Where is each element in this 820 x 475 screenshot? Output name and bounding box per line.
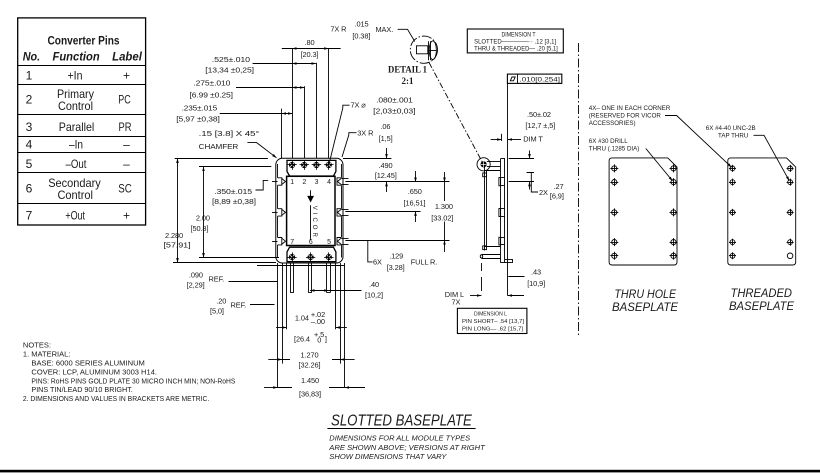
4X corner leader — [665, 116, 732, 168]
top pins 1-4 — [289, 162, 332, 168]
dim .525 — [253, 63, 316, 65]
pin numbers top — [290, 179, 331, 186]
svg-text:.080±.001: .080±.001 — [376, 96, 413, 105]
svg-text:2: 2 — [302, 179, 306, 186]
left slot row 1 — [272, 178, 286, 185]
ref .090 leader — [229, 281, 278, 283]
3X R leader — [342, 133, 357, 157]
svg-text:DIMENSION L: DIMENSION L — [474, 312, 508, 318]
svg-text:1.450: 1.450 — [301, 376, 319, 385]
svg-text:3X R: 3X R — [357, 129, 373, 138]
dim 2.280 text — [164, 231, 191, 249]
ext line 1.270 right — [340, 263, 342, 364]
svg-text:[10,2]: [10,2] — [365, 291, 383, 300]
svg-text:[6,9]: [6,9] — [550, 192, 564, 201]
svg-text:.525±.010: .525±.010 — [212, 55, 250, 64]
svg-text:6X #30 DRILL: 6X #30 DRILL — [589, 138, 628, 145]
dim 2.280 extension top — [175, 158, 268, 160]
svg-text:THRU (.1285 DIA): THRU (.1285 DIA) — [589, 146, 640, 153]
ext line 1.450 left — [277, 263, 279, 388]
svg-text:VICOR: VICOR — [311, 206, 317, 238]
svg-text:PIN SHORT– .54 [13,7]: PIN SHORT– .54 [13,7] — [462, 319, 524, 325]
dim .650 — [415, 171, 417, 222]
side view module body — [484, 167, 500, 251]
front view bottom pin header band — [287, 247, 336, 262]
svg-text:[1,5]: [1,5] — [379, 134, 393, 143]
svg-text:7X: 7X — [452, 298, 461, 307]
dim .525 arrows — [292, 63, 316, 65]
svg-text:2.00: 2.00 — [196, 214, 210, 223]
detail circle — [410, 36, 437, 63]
svg-text:4: 4 — [327, 179, 331, 186]
svg-text:SLOTTED————–·· .12 [3,1]: SLOTTED————–·· .12 [3,1] — [474, 39, 556, 46]
dim .235 text — [176, 104, 219, 124]
dim .350 text — [212, 187, 256, 206]
dimension L box — [457, 308, 527, 333]
dim .50 ext row1 — [509, 181, 534, 183]
svg-text:–: – — [123, 138, 130, 152]
dimension L box text — [462, 312, 524, 333]
svg-text:[0.38]: [0.38] — [352, 31, 370, 40]
svg-text:3: 3 — [315, 179, 319, 186]
slot row2 ext right — [345, 211, 420, 213]
svg-text:[13,34 ±0,25]: [13,34 ±0,25] — [205, 66, 254, 75]
dim 1.270 line — [268, 359, 354, 361]
svg-text:.490: .490 — [379, 161, 393, 170]
svg-text:7X R: 7X R — [330, 24, 346, 33]
pin numbers bottom — [290, 239, 331, 246]
svg-text:1.04: 1.04 — [295, 313, 309, 322]
7X dia leader — [330, 105, 350, 162]
dim .490 — [386, 148, 388, 192]
bottom pin cross ticks — [287, 252, 333, 261]
bottom pin 5 lead — [327, 263, 331, 293]
svg-text:SHOW DIMENSIONS THAT VARY: SHOW DIMENSIONS THAT VARY — [329, 452, 447, 461]
svg-text:.275±.010: .275±.010 — [193, 79, 230, 88]
svg-text:–Out: –Out — [66, 157, 88, 171]
slotted baseplate title — [331, 412, 472, 429]
svg-text:ARE SHOWN ABOVE; VERSIONS AT R: ARE SHOWN ABOVE; VERSIONS AT RIGHT — [328, 443, 486, 452]
dim 1.300 — [444, 172, 446, 252]
svg-text:[36,83]: [36,83] — [299, 389, 321, 398]
svg-text:Control: Control — [58, 99, 93, 113]
svg-text:[3.28]: [3.28] — [387, 263, 405, 272]
svg-text:NOTES:: NOTES: — [23, 341, 51, 350]
dim 2.280 line — [177, 159, 179, 263]
svg-text:.40: .40 — [369, 280, 379, 289]
dim 1.300 text — [430, 201, 460, 222]
svg-text:7X ⌀: 7X ⌀ — [351, 101, 366, 110]
slot row3 ext right — [345, 240, 449, 242]
dim 2.00 extension bottom — [199, 257, 279, 259]
6X .129 bracket — [368, 240, 373, 262]
dim .650 text — [404, 187, 426, 208]
dim .275 text — [190, 79, 233, 100]
svg-text:[12.45]: [12.45] — [375, 171, 397, 180]
svg-text:.090: .090 — [189, 270, 203, 279]
pin 3 extension line — [316, 63, 318, 158]
threaded plate open hole bottom right — [787, 253, 793, 259]
svg-text:[26.4: [26.4 — [294, 334, 310, 343]
svg-text:7: 7 — [26, 209, 33, 223]
svg-text:Converter Pins: Converter Pins — [48, 34, 120, 48]
svg-text:6X: 6X — [373, 258, 382, 267]
svg-text:.650: .650 — [408, 187, 422, 196]
svg-text:1.300: 1.300 — [435, 202, 453, 211]
dimension T box text — [474, 31, 558, 52]
svg-text:.27: .27 — [554, 182, 564, 191]
svg-text:Label: Label — [112, 50, 142, 64]
slot row1 ext right — [345, 181, 449, 183]
table text — [23, 34, 143, 223]
svg-text:2.280: 2.280 — [165, 231, 183, 240]
svg-text:1: 1 — [26, 69, 33, 83]
svg-text:6: 6 — [26, 182, 33, 196]
dim .50 ext top — [509, 158, 534, 160]
side view plate face ext line — [507, 83, 509, 295]
svg-text:[33.02]: [33.02] — [431, 213, 453, 222]
svg-text:[12,7 ±,5]: [12,7 ±,5] — [525, 121, 555, 130]
svg-text:2:1: 2:1 — [402, 76, 414, 86]
dim T text — [523, 135, 543, 144]
dim .235 — [220, 113, 293, 115]
chamfer leader — [247, 143, 276, 158]
side view bottom pin — [480, 246, 500, 259]
detail title — [388, 66, 427, 87]
svg-text:PR: PR — [119, 120, 132, 134]
dim L line — [470, 295, 524, 297]
threaded plate holes left — [729, 165, 736, 259]
pin 4 extension line — [328, 49, 330, 159]
svg-text:[2,29]: [2,29] — [187, 280, 205, 289]
dim L text — [445, 290, 464, 307]
svg-text:Control: Control — [57, 188, 93, 202]
dim .40 text — [365, 280, 383, 299]
svg-text:.06: .06 — [380, 122, 390, 131]
svg-text:1: 1 — [290, 179, 294, 186]
bottom pin 7 lead — [290, 263, 293, 293]
bottom pin white X — [290, 255, 331, 259]
thru hole plate holes right — [670, 164, 678, 259]
svg-text:Function: Function — [53, 50, 100, 64]
svg-text:COVER: LCP, ALUMINUM 3003 H14.: COVER: LCP, ALUMINUM 3003 H14. — [31, 367, 157, 376]
converter pins table — [18, 18, 146, 225]
svg-text:3: 3 — [26, 120, 33, 134]
side view detail boundary circle — [477, 158, 490, 171]
svg-text:2X: 2X — [539, 188, 548, 197]
right slot row 2 — [337, 209, 349, 216]
svg-text:6X #4-40 UNC-2B: 6X #4-40 UNC-2B — [706, 125, 756, 132]
svg-text:.15 [3.8] X 45°: .15 [3.8] X 45° — [199, 129, 260, 138]
svg-text:4X– ONE IN EACH CORNER: 4X– ONE IN EACH CORNER — [589, 105, 671, 112]
svg-text:REF.: REF. — [209, 275, 225, 284]
svg-text:ACCESSORIES): ACCESSORIES) — [589, 120, 636, 127]
threaded title — [729, 286, 795, 313]
dim .350 elbow — [256, 180, 269, 190]
svg-text:0: 0 — [317, 336, 321, 345]
ref .20 text — [210, 297, 246, 316]
svg-text:[8,89 ±0,38]: [8,89 ±0,38] — [212, 197, 256, 206]
side view top pin — [481, 161, 501, 177]
6X tap note text — [706, 125, 756, 140]
separator centerline — [578, 43, 580, 337]
slotted baseplate subtitle — [328, 434, 486, 461]
7X R note text — [330, 19, 393, 40]
svg-text:MAX.: MAX. — [376, 25, 394, 34]
chamfer note text — [199, 129, 260, 151]
7X R leader — [398, 29, 415, 41]
side view baseplate profile — [499, 159, 513, 263]
svg-text:PINS: RoHS PINS GOLD PLATE 30: PINS: RoHS PINS GOLD PLATE 30 MICRO INCH… — [31, 376, 235, 385]
svg-text:[2,03±0,03]: [2,03±0,03] — [373, 107, 415, 116]
flange edge extension line — [281, 109, 283, 158]
svg-text:.010[0.254]: .010[0.254] — [520, 76, 561, 83]
dim .275 arrows — [292, 87, 304, 89]
2X .27 bracket — [527, 173, 539, 193]
dim 1.04 line — [276, 327, 347, 329]
detail section leader dash-dot — [429, 63, 483, 163]
bottom border bar — [0, 470, 820, 473]
dim .43 text — [527, 268, 545, 289]
dim 1.450 text — [292, 376, 329, 397]
dimension T box — [467, 29, 563, 53]
dim L ext line — [481, 263, 483, 291]
svg-text:DIMENSIONS FOR ALL MODULE TYPE: DIMENSIONS FOR ALL MODULE TYPES — [329, 434, 470, 443]
svg-text:.80: .80 — [305, 38, 315, 47]
threaded baseplate outline — [728, 158, 796, 265]
pin 1 extension line — [292, 49, 294, 159]
svg-text:[5,97 ±0,38]: [5,97 ±0,38] — [176, 114, 219, 123]
ref .090 text — [187, 270, 224, 289]
svg-text:.43: .43 — [531, 268, 541, 277]
svg-text:PIN LONG— .62 [15,7]: PIN LONG— .62 [15,7] — [462, 326, 523, 332]
top pin cross ticks — [287, 161, 333, 170]
svg-text:2: 2 — [26, 93, 33, 107]
dim T dimension — [491, 134, 521, 141]
svg-text:7: 7 — [290, 239, 294, 246]
dim .490 text — [375, 161, 397, 180]
svg-text:5: 5 — [26, 157, 33, 171]
dim .43 leader — [508, 276, 524, 278]
ext line 1.04 right — [335, 263, 337, 329]
bottom pins 7 6 5 — [289, 254, 332, 260]
svg-text:1.270: 1.270 — [301, 350, 319, 359]
module top ext right — [343, 158, 391, 160]
svg-text:5: 5 — [327, 239, 331, 246]
svg-text:4: 4 — [26, 138, 33, 152]
dim 2.00 text — [191, 214, 210, 234]
front view top pin header band — [287, 160, 336, 176]
svg-text:REF.: REF. — [231, 300, 247, 309]
left slot row 2 — [272, 209, 286, 216]
thru hole baseplate outline — [609, 158, 677, 265]
pin 2 extension line — [304, 86, 306, 158]
right slot row 1 — [337, 178, 349, 185]
svg-text:FULL R.: FULL R. — [411, 258, 438, 267]
4X corner note text — [589, 105, 671, 127]
svg-text:(RESERVED FOR VICOR: (RESERVED FOR VICOR — [589, 113, 662, 120]
svg-text:BASEPLATE: BASEPLATE — [612, 300, 679, 314]
bottom pin 6 lead — [308, 263, 311, 293]
svg-text:CHAMFER: CHAMFER — [199, 142, 239, 151]
svg-text:SC: SC — [118, 182, 132, 196]
svg-text:–In: –In — [69, 138, 83, 152]
svg-text:.129: .129 — [389, 252, 403, 261]
ext line 1.450 right — [344, 263, 346, 388]
ext line 1.270 left — [282, 263, 284, 364]
svg-text:DIM T: DIM T — [523, 135, 543, 144]
svg-text:DETAIL 1: DETAIL 1 — [388, 66, 427, 76]
threaded plate holes right — [787, 165, 794, 246]
dim 2.00 extension top — [199, 166, 271, 168]
notes block — [23, 341, 236, 404]
dim 1.450 line — [264, 387, 365, 389]
ref .20 leader — [250, 304, 275, 306]
dim 1.270 text — [290, 350, 332, 369]
svg-text:+: + — [123, 209, 130, 223]
flatness frame text — [520, 76, 561, 83]
ext line 1.04 left — [286, 263, 288, 329]
svg-text:DIMENSION T: DIMENSION T — [502, 31, 536, 38]
6X #30 drill note text — [589, 138, 640, 153]
dim .275 — [236, 87, 304, 89]
svg-text:[5,0]: [5,0] — [210, 306, 224, 315]
svg-text:BASEPLATE: BASEPLATE — [729, 299, 795, 313]
side view top pin white cross — [481, 162, 486, 167]
svg-text:BASE: 6000 SERIES ALUMINUM: BASE: 6000 SERIES ALUMINUM — [31, 359, 144, 368]
svg-text:+: + — [123, 69, 130, 83]
7X dia note text — [351, 96, 416, 116]
thru hole plate holes left — [610, 164, 618, 259]
flatness frame — [507, 74, 561, 83]
6X .129 text — [373, 252, 437, 272]
svg-text:[10,9]: [10,9] — [527, 279, 545, 288]
svg-text:.50±.02: .50±.02 — [527, 110, 551, 119]
dim 2.00 line — [203, 167, 205, 258]
dim .50 line — [529, 151, 531, 190]
vicor orientation arrow — [307, 190, 314, 240]
svg-text:.015: .015 — [355, 19, 369, 28]
dim .525 text — [205, 55, 254, 75]
svg-text:[57.91]: [57.91] — [164, 241, 191, 250]
svg-text:PINS TIN/LEAD 90/10 BRIGHT.: PINS TIN/LEAD 90/10 BRIGHT. — [31, 385, 132, 394]
svg-text:6: 6 — [309, 239, 313, 246]
svg-text:SLOTTED BASEPLATE: SLOTTED BASEPLATE — [331, 412, 472, 429]
svg-text:THRU & THREADED— .20 [5,1]: THRU & THREADED— .20 [5,1] — [474, 46, 558, 53]
svg-text:+In: +In — [68, 69, 83, 83]
right slot row 3 — [337, 238, 349, 245]
2X .27 text — [539, 182, 564, 201]
svg-text:[6.99 ±0.25]: [6.99 ±0.25] — [190, 91, 233, 100]
standoff line under module — [257, 265, 345, 267]
svg-text:[16,51]: [16,51] — [404, 199, 426, 208]
svg-text:.20: .20 — [216, 297, 226, 306]
dim .80 — [282, 48, 341, 50]
dim .40 line — [310, 290, 361, 292]
svg-text:No.: No. — [23, 50, 40, 64]
slotted baseplate underline — [327, 428, 475, 430]
dim .80 text — [301, 38, 319, 59]
dim .235 arrows — [282, 113, 292, 115]
svg-text:–.00: –.00 — [311, 317, 325, 326]
svg-text:TAP THRU: TAP THRU — [718, 133, 748, 140]
svg-text:.235±.015: .235±.015 — [182, 104, 218, 113]
left slot row 3 — [272, 238, 286, 245]
svg-text:PC: PC — [118, 93, 131, 107]
svg-text:–: – — [123, 157, 130, 171]
svg-text:[20.3]: [20.3] — [301, 50, 319, 59]
top pin white X — [290, 163, 331, 167]
thru hole title — [612, 287, 679, 314]
dim .50 text — [525, 110, 555, 130]
svg-text:Parallel: Parallel — [59, 120, 95, 134]
6X tap leader — [754, 135, 790, 181]
svg-text:2. DIMENSIONS AND VALUES IN BR: 2. DIMENSIONS AND VALUES IN BRACKETS ARE… — [23, 394, 209, 403]
svg-text:.350±.015: .350±.015 — [214, 187, 252, 196]
dim 2.280 extension bottom — [173, 262, 276, 264]
svg-text:+Out: +Out — [65, 209, 85, 223]
svg-text:[32.26]: [32.26] — [299, 361, 321, 370]
svg-text:[50.8]: [50.8] — [191, 224, 209, 233]
front view inner body rect — [287, 176, 335, 245]
front view module outline — [276, 158, 343, 263]
svg-text:]: ] — [325, 334, 327, 343]
svg-text:1. MATERIAL:: 1. MATERIAL: — [23, 350, 71, 359]
dim 1.04 text — [294, 310, 327, 345]
6X #30 drill leader — [646, 149, 673, 181]
3X R note text — [357, 122, 392, 143]
